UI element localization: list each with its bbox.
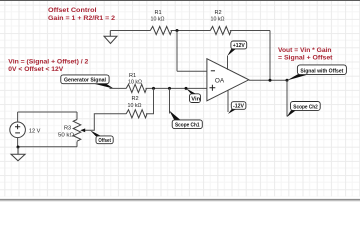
wire Scope Ch1 drop [169,88,171,113]
svg-text:Vin = (Signal + Offset) / 2: Vin = (Signal + Offset) / 2 [8,59,88,66]
annotation: Offset Control / Gain text [48,7,115,22]
junction R2 branch [152,87,155,90]
wire feedback vertical to output [269,31,271,81]
wire Scope Ch2 drop [286,80,288,116]
label +12V [227,41,247,56]
junction Vin label node [185,87,188,90]
svg-text:Generator Signal: Generator Signal [64,78,106,84]
svg-text:Vin: Vin [191,97,200,103]
junction output label node [286,79,289,82]
voltage source V1 12V [10,122,41,138]
svg-text:R1: R1 [129,73,136,79]
svg-text:50 kΩ: 50 kΩ [58,132,74,138]
wire GND1 to R1 [110,30,150,32]
label Vin [186,88,201,102]
wire pot top stem [76,112,78,120]
svg-text:10 kΩ: 10 kΩ [211,16,225,22]
junction Scope Ch1 branch [168,87,171,90]
wire bottom rail [18,146,77,148]
svg-text:R3: R3 [64,126,71,132]
ground GND2 [11,147,25,161]
svg-text:10 kΩ: 10 kΩ [151,16,165,22]
svg-text:-12V: -12V [233,104,244,110]
svg-text:Vout = Vin * Gain: Vout = Vin * Gain [278,47,332,54]
junction feedback/output [269,79,272,82]
wire inverting node down [176,31,178,72]
label Signal with Offset [287,65,347,81]
resistor R1 10k (feedback) [150,10,172,35]
label -12V [228,102,246,114]
annotation: Vout formula text [278,47,333,62]
svg-text:R1: R1 [155,10,162,16]
svg-text:Offset Control: Offset Control [48,7,97,14]
wire to op-amp minus input [177,70,207,72]
wire op-amp output [249,79,287,81]
svg-text:= Signal + Offset: = Signal + Offset [278,55,333,62]
label Offset [90,130,113,144]
resistor R2 10k (feedback) [210,10,231,35]
resistor R2 10k (input, offset) [126,96,147,118]
wire R2 to feedback corner [230,30,270,32]
wire V1 bottom stem [17,138,19,147]
label Scope Ch1 [169,111,202,129]
svg-text:Scope Ch1: Scope Ch1 [175,123,200,129]
wire +12V supply drop [227,56,229,70]
svg-text:Signal with Offset: Signal with Offset [300,68,343,74]
wire pot bottom stem [76,142,78,147]
label Scope Ch2 [287,102,321,118]
wire R1 to R2 [171,30,211,32]
svg-text:R2: R2 [132,96,139,102]
svg-text:12 V: 12 V [29,128,41,134]
svg-text:Scope Ch2: Scope Ch2 [293,104,318,110]
svg-text:R2: R2 [215,10,222,16]
svg-text:Offset: Offset [98,138,111,144]
wire down to R2 input [146,88,154,113]
wire generator to R1 input [110,87,127,89]
wire -12V supply drop [227,90,229,112]
svg-text:10 kΩ: 10 kΩ [128,103,142,109]
junction ground node [17,146,20,149]
resistor R1 10k (input, signal) [126,73,146,93]
wire V1 top stem [17,112,19,122]
svg-text:Gain = 1 + R2/R1 = 2: Gain = 1 + R2/R1 = 2 [48,15,115,22]
svg-text:10 kΩ: 10 kΩ [128,79,142,85]
op-amp OA [207,59,249,101]
label Generator Signal [61,75,114,89]
junction at inverting node [176,29,179,32]
annotation: Vin formula text [8,59,88,74]
svg-text:+12V: +12V [233,43,245,49]
wire top rail to pot [18,111,77,113]
ground GND1 (top, feedback divider) [104,31,117,44]
svg-text:0V < Offset < 12V: 0V < Offset < 12V [8,66,64,73]
svg-text:OA: OA [215,78,225,85]
wire R2 input left to pot wiper [85,114,126,131]
wire R1 input to op-amp plus input [146,87,207,89]
potentiometer R3 50k [58,120,85,142]
